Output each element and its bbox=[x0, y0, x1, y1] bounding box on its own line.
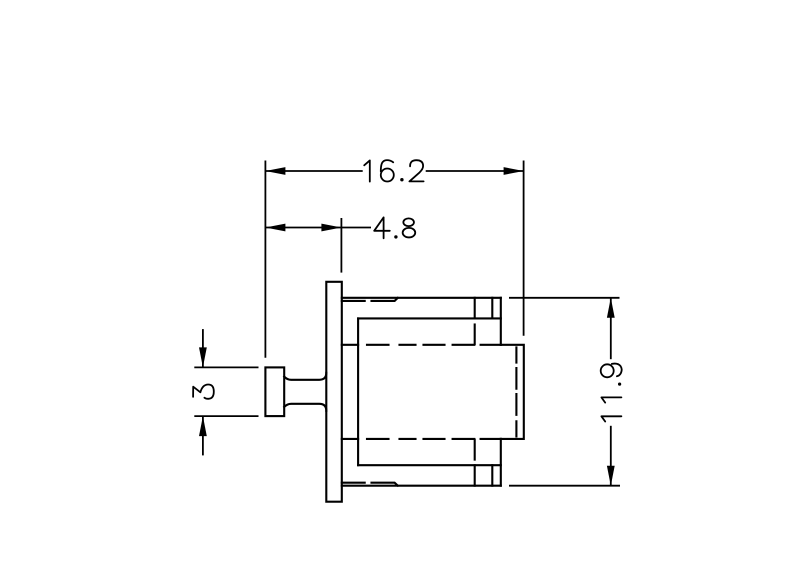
top step line segment 2 with chamfer bbox=[372, 298, 398, 301]
label 11.9 digit 9 rotated bbox=[601, 364, 614, 377]
bore line bottom solid stub bbox=[342, 438, 358, 440]
dim 16.2 line right part bbox=[426, 170, 524, 172]
label 4.8 digit 4 bbox=[374, 217, 390, 238]
top step line segment 1 bbox=[342, 300, 365, 302]
body right edge lower segment bbox=[500, 439, 502, 486]
right plug block outline bbox=[501, 345, 524, 439]
bottom end-cap vertical 2 bbox=[491, 465, 493, 486]
dim 16.2 left extension line bbox=[264, 161, 266, 358]
dim 11.9 top extension line bbox=[509, 297, 620, 299]
flange (mounting plate) bbox=[326, 282, 342, 502]
hidden vertical dash top bbox=[474, 325, 476, 345]
dim 11.9 bottom extension line bbox=[509, 485, 620, 487]
dim 3 top extension line bbox=[194, 366, 258, 368]
dim 4.8 right extension line bbox=[340, 218, 342, 273]
arrow 4.8 left bbox=[265, 224, 285, 232]
arrow 16.2 left bbox=[265, 167, 285, 175]
pin neck bottom line with fillets bbox=[284, 404, 326, 411]
label 16.2 decimal point bbox=[400, 178, 403, 181]
label 4.8 digit 8 bbox=[403, 218, 414, 226]
dim 3 line below bbox=[202, 416, 204, 455]
top end-cap vertical 2 bbox=[491, 298, 493, 319]
label 11.9 digit 1 rotated (second) bbox=[601, 416, 621, 421]
inner housing left edge bbox=[357, 318, 359, 465]
dim 11.9 line lower part bbox=[610, 426, 612, 486]
dim 3 line above bbox=[202, 329, 204, 367]
label 11.9 decimal point rotated bbox=[618, 383, 621, 386]
body bottom edge bbox=[342, 485, 501, 487]
body top edge bbox=[342, 297, 501, 299]
bottom step line segment 1 bbox=[342, 482, 365, 484]
arrow 16.2 right bbox=[504, 167, 524, 175]
hidden line top dashes bbox=[367, 344, 501, 346]
arrow 4.8 right bbox=[321, 224, 341, 232]
dim 4.8 line bbox=[265, 227, 371, 229]
inner housing top edge bbox=[358, 317, 501, 319]
body right edge upper segment bbox=[500, 298, 502, 345]
label 16.2 digit 6 bbox=[381, 160, 393, 171]
label 3 rotated bbox=[193, 385, 214, 399]
dim 11.9 line upper part bbox=[610, 298, 612, 359]
inner housing bottom edge bbox=[358, 464, 501, 466]
right plug hidden dashed edge bbox=[515, 347, 517, 436]
bottom step line segment 2 with chamfer bbox=[372, 483, 398, 486]
hidden line bottom dashes bbox=[367, 438, 501, 440]
label 16.2 digit 2 bbox=[409, 160, 423, 181]
dim 16.2 line left part bbox=[265, 170, 362, 172]
pin neck top line with fillets bbox=[284, 373, 326, 380]
arrow 3 top bbox=[199, 347, 207, 367]
bottom end-cap vertical 1 bbox=[474, 465, 476, 486]
label 16.2 digit 1 bbox=[364, 160, 370, 181]
label 11.9 digit 1 rotated (first) bbox=[601, 397, 621, 402]
bore line top solid stub bbox=[342, 344, 358, 346]
arrow 11.9 bottom bbox=[607, 466, 615, 486]
arrow 3 bottom bbox=[199, 416, 207, 436]
hidden vertical dash bottom bbox=[474, 440, 476, 460]
dim 16.2 right extension line bbox=[523, 161, 525, 336]
top end-cap vertical 1 bbox=[474, 298, 476, 319]
pin head bbox=[265, 367, 284, 416]
label 4.8 decimal point bbox=[394, 235, 397, 238]
dim 3 bottom extension line bbox=[194, 415, 258, 417]
arrow 11.9 top bbox=[607, 298, 615, 318]
